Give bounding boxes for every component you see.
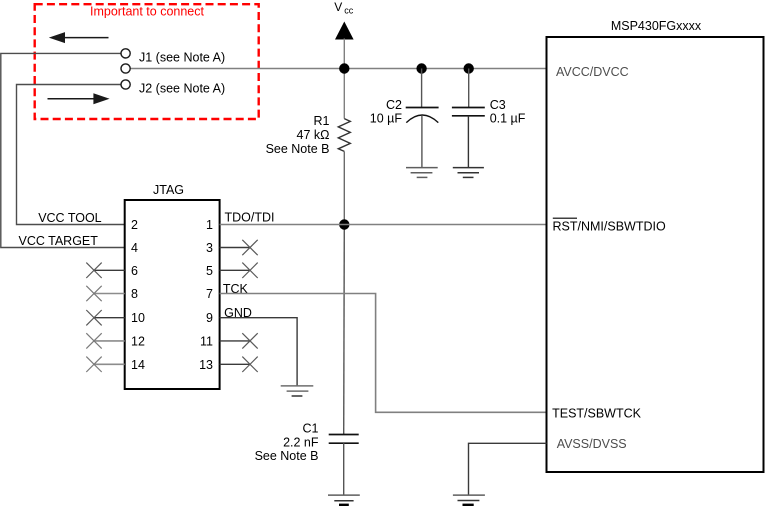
svg-text:11: 11 [200, 334, 213, 348]
svg-text:VCC TARGET: VCC TARGET [19, 234, 99, 248]
wire C3 to ground [467, 116, 469, 168]
svg-text:2.2 nF: 2.2 nF [283, 435, 319, 449]
stub pin 5 [220, 269, 250, 271]
svg-text:47 kΩ: 47 kΩ [297, 128, 330, 142]
svg-text:0.1 µF: 0.1 µF [490, 112, 526, 126]
stub pin 3 [220, 247, 250, 249]
svg-text:See Note B: See Note B [255, 449, 319, 463]
stub pin 6 [94, 269, 125, 271]
svg-text:12: 12 [131, 334, 145, 348]
svg-text:3: 3 [206, 241, 213, 255]
no-connect X pin 11 [242, 333, 257, 348]
power Vcc arrow symbol [335, 22, 354, 40]
svg-text:J1 (see Note A): J1 (see Note A) [139, 50, 225, 64]
ground C3 [453, 168, 484, 178]
label C3 value [490, 98, 526, 126]
ground C1 [328, 495, 360, 506]
label C2 value [370, 98, 403, 126]
wire C1 to ground [343, 443, 345, 495]
svg-text:C3: C3 [490, 98, 506, 112]
resistor R1 [338, 119, 350, 152]
stub pin 14 [94, 363, 125, 365]
ground C2 [406, 168, 438, 178]
wire Vcc bus (middle pad to AVCC/DVCC) [130, 68, 546, 70]
power Vcc label [334, 0, 353, 15]
red dashed annotation box [35, 4, 259, 119]
svg-text:MSP430FGxxxx: MSP430FGxxxx [611, 19, 702, 33]
svg-text:Important to connect: Important to connect [90, 5, 204, 19]
svg-text:AVSS/DVSS: AVSS/DVSS [557, 437, 627, 451]
connector JTAG box [125, 200, 220, 389]
svg-text:R1: R1 [314, 114, 330, 128]
wire J2 net (J2 pad to JTAG pin 2, VCC TOOL) [17, 85, 125, 225]
svg-text:V: V [334, 0, 342, 14]
svg-text:5: 5 [206, 264, 213, 278]
wire J1 net (J1 pad to JTAG pin 4, VCC TARGET) [1, 53, 125, 247]
no-connect X pin 3 [242, 240, 257, 255]
no-connect X pin 14 [86, 357, 101, 372]
svg-text:7: 7 [206, 287, 213, 301]
wire C3 stem [468, 69, 470, 108]
wire TDO/TDI to RST [220, 224, 547, 226]
wire C2 stem [421, 69, 423, 108]
no-connect X pin 5 [242, 263, 257, 278]
label R1 value [266, 114, 330, 156]
svg-text:8: 8 [131, 287, 138, 301]
pad J2 [121, 80, 130, 89]
svg-text:10 µF: 10 µF [370, 112, 403, 126]
pin label RST/NMI/SBWTDIO with overline [553, 218, 666, 233]
svg-text:See Note B: See Note B [266, 142, 330, 156]
stub pin 13 [220, 363, 250, 365]
stub pin 12 [94, 340, 125, 342]
svg-text:cc: cc [344, 5, 354, 15]
pad J1 [121, 49, 130, 58]
svg-text:JTAG: JTAG [153, 183, 184, 197]
ground GND pin 9 [281, 386, 314, 396]
wire C2 to ground [421, 116, 423, 167]
svg-text:C1: C1 [303, 422, 319, 436]
junction Vcc/R1 [339, 63, 349, 73]
capacitor C1 [329, 435, 359, 444]
svg-text:9: 9 [206, 311, 213, 325]
junction C2 [416, 63, 426, 73]
svg-text:J2 (see Note A): J2 (see Note A) [139, 81, 225, 95]
ground AVSS [453, 495, 485, 506]
junction C3 [464, 63, 474, 73]
wire TCK to TEST/SBWTCK [220, 294, 547, 413]
stub pin 10 [94, 317, 125, 319]
no-connect X pin 10 [86, 310, 101, 325]
stub pin 8 [94, 293, 125, 295]
no-connect X pin 6 [86, 263, 101, 278]
svg-text:RST/NMI/SBWTDIO: RST/NMI/SBWTDIO [553, 219, 666, 233]
svg-text:4: 4 [131, 241, 138, 255]
wire Vcc node to R1 [343, 69, 345, 119]
wire GND [220, 318, 298, 386]
svg-text:2: 2 [131, 218, 138, 232]
arrow left [49, 32, 109, 43]
wire RST node down to C1 [343, 225, 346, 435]
wire AVSS/DVSS to ground [469, 443, 547, 495]
arrow right [48, 93, 110, 104]
svg-text:TEST/SBWTCK: TEST/SBWTCK [552, 407, 642, 421]
pad middle (Vcc) [121, 64, 130, 73]
no-connect X pin 12 [86, 333, 101, 348]
svg-text:10: 10 [131, 311, 145, 325]
label C1 value [255, 422, 319, 464]
wire Vcc stem [343, 39, 345, 69]
stub pin 11 [220, 340, 250, 342]
svg-text:C2: C2 [386, 98, 402, 112]
svg-text:6: 6 [131, 264, 138, 278]
svg-text:VCC TOOL: VCC TOOL [38, 211, 101, 225]
svg-text:13: 13 [199, 358, 213, 372]
wire R1 to RST node [343, 151, 345, 224]
svg-text:1: 1 [206, 218, 213, 232]
svg-text:TDO/TDI: TDO/TDI [225, 211, 275, 225]
no-connect X pin 13 [242, 357, 257, 372]
IC MSP430FGxxxx box [547, 37, 764, 472]
capacitor C2 (polarized) [406, 108, 439, 123]
svg-text:AVCC/DVCC: AVCC/DVCC [556, 65, 629, 79]
junction RST/TDO [339, 219, 349, 229]
no-connect X pin 8 [86, 286, 101, 301]
svg-text:14: 14 [131, 358, 145, 372]
capacitor C3 [452, 108, 485, 116]
